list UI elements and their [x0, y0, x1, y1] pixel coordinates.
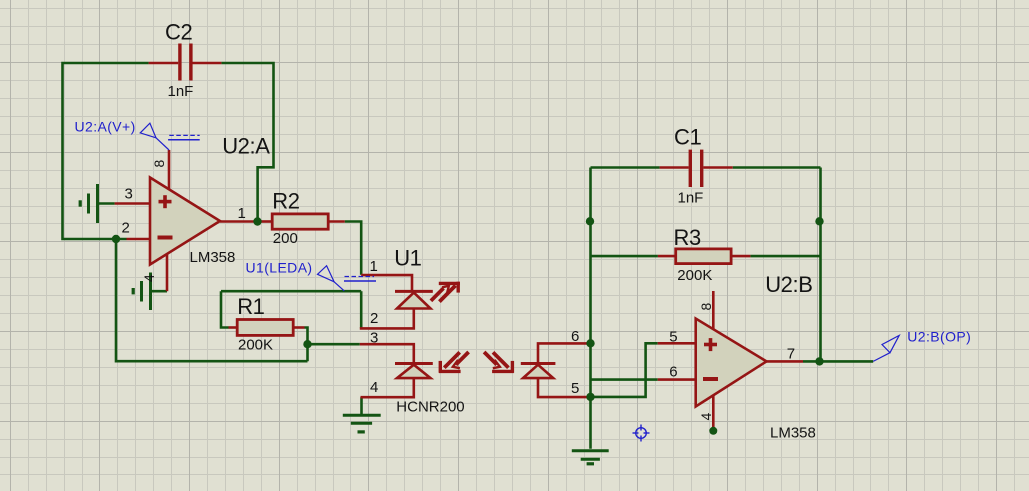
- pin 5 label photodiode: [571, 380, 579, 397]
- op-amp U2:A: [115, 150, 258, 291]
- R1 value label 200K: [238, 336, 273, 353]
- junction node at photodiode pin5: [586, 393, 594, 401]
- svg-text:U1: U1: [394, 245, 421, 270]
- svg-text:C2: C2: [165, 20, 192, 45]
- wire pin3 node to U1 pin3: [308, 343, 360, 346]
- optocoupler U1 output photodiode (pins 6-5): [521, 343, 590, 397]
- svg-text:2: 2: [122, 220, 130, 237]
- svg-text:200: 200: [273, 230, 298, 247]
- svg-text:200K: 200K: [677, 267, 712, 284]
- junction node at U2:A output: [253, 217, 261, 225]
- wire inverting node to U2:B pin6: [591, 378, 658, 381]
- svg-text:1nF: 1nF: [678, 190, 704, 207]
- pin 7 label U2:B: [787, 346, 795, 363]
- svg-text:4: 4: [370, 379, 378, 396]
- svg-text:5: 5: [669, 329, 677, 346]
- op-amp U2:B: [658, 291, 803, 430]
- svg-text:U1(LEDA): U1(LEDA): [246, 259, 313, 275]
- node dot at U2:B pin4 end: [709, 427, 717, 435]
- wire R3 right lead connection: [750, 255, 820, 258]
- net label U1(LEDA): [246, 259, 313, 275]
- svg-text:200K: 200K: [238, 336, 273, 353]
- pin 1 label U1: [370, 258, 378, 275]
- C2 reference label: [165, 20, 192, 45]
- R3 value label 200K: [677, 267, 712, 284]
- svg-text:4: 4: [141, 274, 157, 282]
- svg-text:7: 7: [787, 346, 795, 363]
- pin 8 label U2:B (rotated): [698, 302, 714, 310]
- pin 8 label U2:A (rotated): [151, 159, 167, 167]
- C1 reference label: [674, 125, 701, 150]
- wire ground stub at U2:A pin4: [151, 290, 168, 293]
- resistor R2: [258, 214, 345, 229]
- svg-text:U2:A(V+): U2:A(V+): [75, 119, 136, 135]
- junction node at U2:B output: [815, 357, 823, 365]
- pin 4 label U1: [370, 379, 378, 396]
- net label U2:B(OP): [907, 328, 971, 344]
- svg-text:1nF: 1nF: [168, 83, 194, 100]
- pin 3 label U1: [370, 330, 378, 347]
- junction node on left rail: [586, 217, 594, 225]
- node U2:B(OP) terminal flag: [873, 335, 899, 361]
- svg-text:U2:B: U2:B: [765, 272, 812, 297]
- wire U1 pin4 down to ground: [360, 397, 363, 415]
- wire R2 output down to U1 pin1: [345, 222, 362, 275]
- svg-text:U2:A: U2:A: [222, 134, 270, 159]
- pin 6 label photodiode: [571, 328, 579, 345]
- svg-text:R1: R1: [237, 294, 264, 319]
- U1 value label HCNR200: [396, 399, 464, 416]
- junction node at R1/U1 pin3: [303, 340, 311, 348]
- svg-text:R3: R3: [674, 225, 701, 250]
- wire bottom return rail to U2:A inverting node: [116, 239, 308, 361]
- R3 reference label: [674, 225, 701, 250]
- svg-text:C1: C1: [674, 125, 701, 150]
- junction node on right rail: [815, 217, 823, 225]
- capacitor C1: [660, 150, 733, 187]
- svg-text:4: 4: [698, 412, 714, 420]
- svg-text:U2:B(OP): U2:B(OP): [907, 328, 971, 344]
- svg-text:1: 1: [238, 205, 246, 222]
- optocoupler output-side emission arrows: [484, 352, 514, 373]
- wire right rail down to U2:B output node: [819, 168, 822, 362]
- wire ground stub at U2:A pin3: [98, 202, 115, 205]
- ground under U1 pin4: [343, 415, 381, 432]
- svg-text:6: 6: [571, 328, 579, 345]
- U2:A reference label: [222, 134, 270, 159]
- C1 value label 1nF: [678, 190, 704, 207]
- wire C2 feedback loop left: top + left vertical + to pin2 node: [63, 63, 149, 239]
- R2 reference label: [272, 189, 299, 214]
- wire U1(LEDA) down to U1 pin2: [360, 291, 363, 328]
- pin 1 label U2:A: [238, 205, 246, 222]
- pin 2 label U1: [370, 310, 378, 327]
- pin 4 label U2:B (rotated): [698, 412, 714, 420]
- svg-text:1: 1: [370, 258, 378, 275]
- junction node at photodiode pin6: [586, 339, 594, 347]
- ground at U2:A pin3: [80, 184, 97, 223]
- svg-text:3: 3: [370, 330, 378, 347]
- wire down to R1 left lead: [221, 291, 229, 327]
- U2:B reference label: [765, 272, 812, 297]
- capacitor C2: [149, 44, 222, 81]
- svg-text:5: 5: [571, 380, 579, 397]
- svg-text:LM358: LM358: [770, 425, 816, 442]
- U1 LED emission arrows: [431, 282, 460, 302]
- wire C1 right lead connection: [733, 166, 821, 169]
- origin marker crosshair: [633, 425, 650, 442]
- wire left feedback rail of U2:B (C1/R3 left, down to ground): [589, 168, 592, 449]
- svg-text:8: 8: [151, 159, 167, 167]
- U1 photodiode receive arrows: [439, 352, 469, 373]
- net label U2:A(V+): [75, 119, 136, 135]
- R1 reference label: [237, 294, 264, 319]
- pin 4 label U2:A (rotated): [141, 274, 157, 282]
- resistor R1: [229, 320, 305, 336]
- svg-text:3: 3: [125, 185, 133, 202]
- svg-text:HCNR200: HCNR200: [396, 399, 464, 416]
- pin 6 label U2:B: [669, 364, 677, 381]
- svg-text:2: 2: [370, 310, 378, 327]
- R2 value label 200: [273, 230, 298, 247]
- wire R1 right lead down past pin3 node: [305, 328, 308, 362]
- resistor R3: [658, 249, 751, 264]
- node U2:A(V+) terminal flag: [140, 123, 200, 150]
- ground at U2:A pin4: [133, 273, 150, 311]
- U2:B value label LM358: [770, 425, 816, 442]
- U1 reference label: [394, 245, 421, 270]
- C2 value label 1nF: [168, 83, 194, 100]
- ground under photodiode pin5 rail: [572, 451, 609, 464]
- pin 5 label U2:B: [669, 329, 677, 346]
- svg-text:R2: R2: [272, 189, 299, 214]
- svg-text:LM358: LM358: [190, 249, 236, 266]
- svg-text:8: 8: [698, 302, 714, 310]
- node U1(LEDA) terminal flag: [318, 266, 377, 291]
- U2:A value label LM358: [190, 249, 236, 266]
- wire R3 left lead connection: [591, 255, 658, 258]
- svg-text:6: 6: [669, 364, 677, 381]
- junction node at U2:A inverting input: [112, 235, 120, 243]
- pin 2 label U2:A: [122, 220, 130, 237]
- wire C1 left lead connection: [591, 166, 660, 169]
- wire C2 right to jog down into U2:A output node: [221, 63, 273, 222]
- optocoupler U1 LED (pins 1-2): [360, 275, 433, 328]
- wire net U1(LEDA) horizontal run: [221, 290, 361, 293]
- wire U2:B output to terminal flag: [803, 360, 873, 363]
- wire photodiode pin5 node up-over to U2:B pin5: [591, 343, 658, 397]
- optocoupler U1 feedback photodiode (pins 3-4): [360, 344, 433, 397]
- pin 3 label U2:A: [125, 185, 133, 202]
